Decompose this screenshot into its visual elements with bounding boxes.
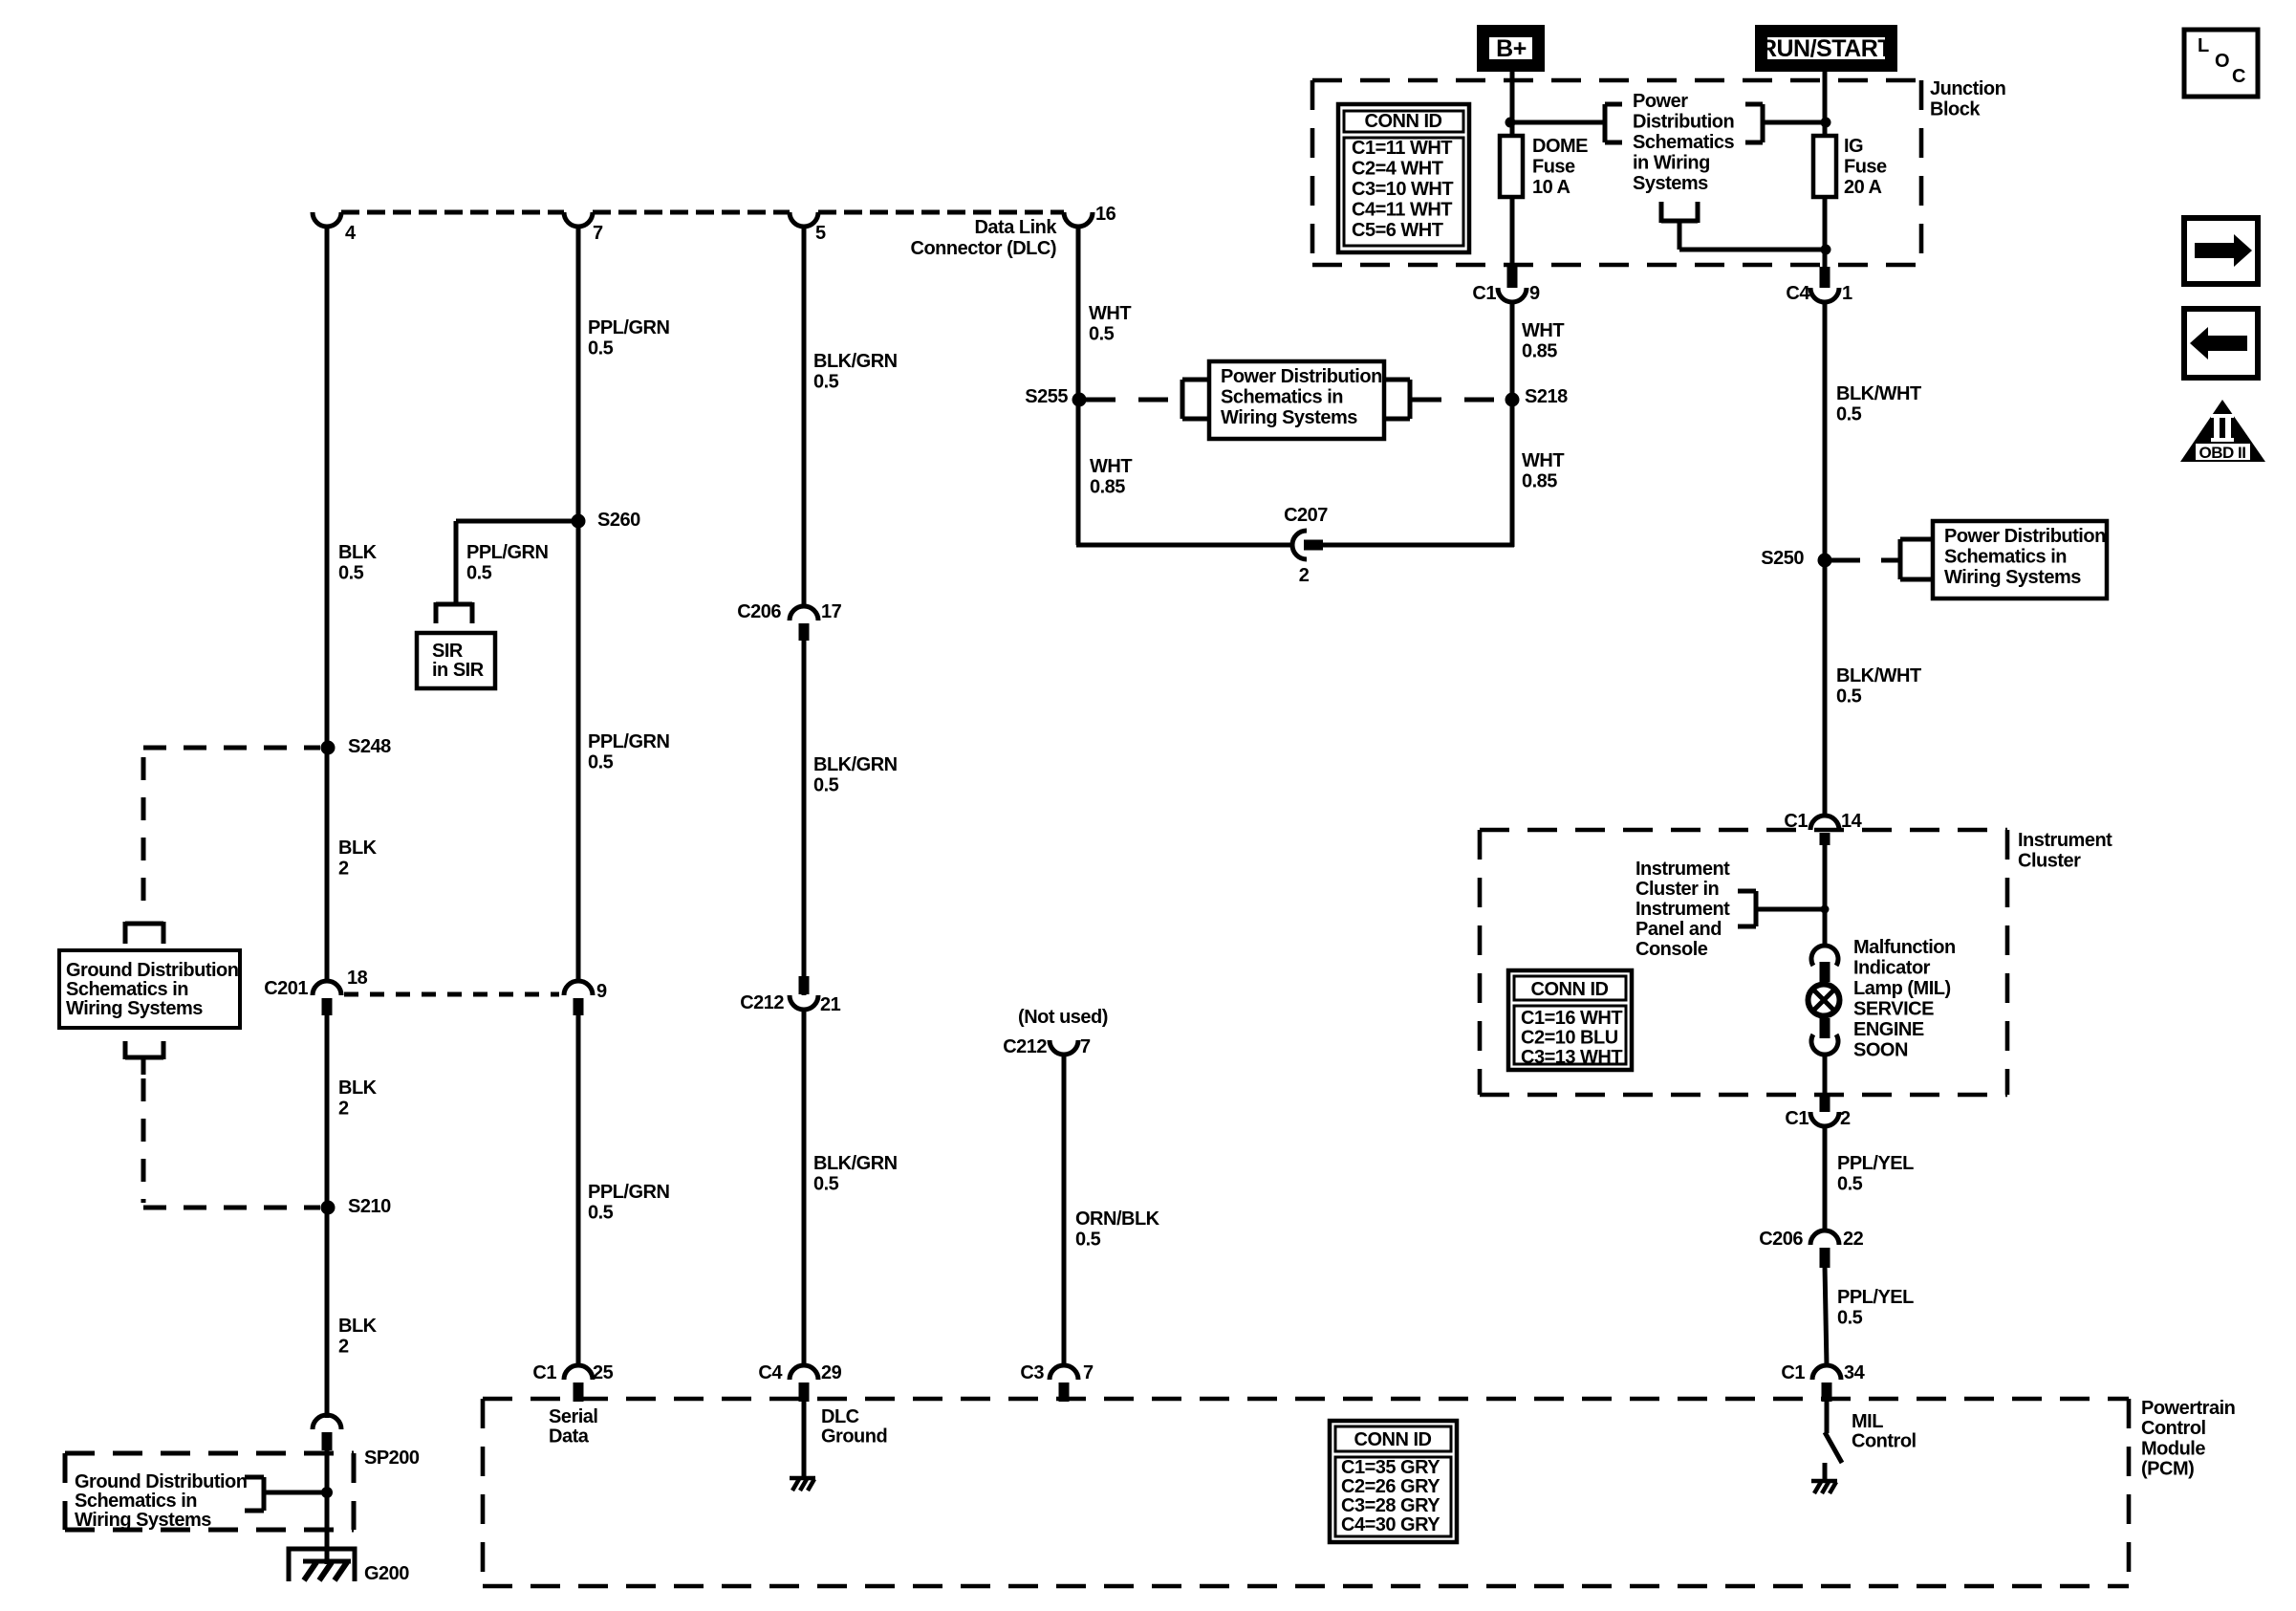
ground DLC inside PCM	[790, 1478, 815, 1491]
svg-text:Cluster: Cluster	[2018, 851, 2081, 872]
splice S210	[321, 1196, 392, 1217]
svg-text:9: 9	[596, 981, 607, 1002]
fuse DOME 10A	[1500, 136, 1588, 198]
svg-text:Module: Module	[2141, 1438, 2205, 1459]
svg-text:Ground: Ground	[821, 1426, 887, 1448]
svg-text:C1=16 WHT: C1=16 WHT	[1521, 1008, 1622, 1029]
arrow previous page	[2184, 309, 2258, 378]
label Serial Data	[549, 1406, 597, 1448]
wire BLK pin4 to C201	[325, 226, 330, 982]
svg-text:4: 4	[345, 223, 357, 244]
svg-text:ENGINE: ENGINE	[1853, 1019, 1924, 1040]
label BLK 2 (upper)	[338, 838, 378, 880]
connector C201 pin 18	[264, 968, 367, 1015]
wire BLK/GRN pin5 to C206	[802, 226, 807, 607]
svg-text:Power: Power	[1633, 91, 1688, 112]
connector C1 pin 25	[532, 1362, 613, 1402]
wire lamp to C1-2	[1823, 1054, 1828, 1097]
svg-text:in Wiring: in Wiring	[1633, 153, 1710, 174]
svg-text:PPL/GRN: PPL/GRN	[588, 317, 669, 338]
svg-text:2: 2	[338, 1099, 349, 1120]
svg-text:BLK/GRN: BLK/GRN	[813, 1153, 898, 1174]
svg-text:S250: S250	[1761, 548, 1804, 569]
svg-text:CONN ID: CONN ID	[1354, 1429, 1432, 1450]
svg-text:Malfunction: Malfunction	[1853, 937, 1956, 958]
svg-text:7: 7	[593, 223, 603, 244]
node IG distribution	[1821, 118, 1831, 128]
svg-text:SOON: SOON	[1853, 1040, 1908, 1061]
wire node to left bracket	[1510, 120, 1605, 125]
dashed wire S250 to bracket	[1831, 558, 1900, 563]
svg-text:C212: C212	[1003, 1036, 1047, 1057]
svg-text:Schematics in: Schematics in	[1944, 546, 2067, 567]
DLC connector dashed boundary line	[341, 210, 1064, 215]
ground distribution schematics box (left)	[59, 950, 240, 1028]
wire B+ to DOME fuse	[1510, 66, 1515, 138]
svg-text:Data: Data	[549, 1426, 590, 1448]
svg-text:C3: C3	[1020, 1362, 1044, 1383]
svg-text:C207: C207	[1284, 505, 1328, 526]
svg-text:Ground Distribution: Ground Distribution	[75, 1471, 247, 1492]
connector C4 pin 29	[758, 1362, 841, 1402]
svg-text:Wiring Systems: Wiring Systems	[66, 998, 203, 1019]
lamp MIL pin lower	[1820, 1018, 1830, 1038]
wire RUN/START to IG fuse	[1823, 66, 1828, 138]
power distribution schematics box (mid)	[1209, 361, 1384, 439]
bracket right of power distribution box (mid)	[1385, 380, 1410, 419]
svg-text:WHT: WHT	[1522, 320, 1564, 341]
svg-text:Cluster in: Cluster in	[1635, 879, 1719, 900]
svg-text:SIR: SIR	[432, 641, 464, 662]
DLC pin 4 connector	[313, 212, 357, 244]
svg-text:Schematics in: Schematics in	[66, 979, 188, 1000]
svg-text:BLK/GRN: BLK/GRN	[813, 351, 898, 372]
SIR box	[417, 633, 495, 688]
label BLK/WHT 0.5 (upper)	[1836, 383, 1921, 425]
label DLC Ground	[821, 1406, 887, 1448]
label BLK/WHT 0.5 (lower)	[1836, 665, 1921, 708]
svg-text:Power Distribution: Power Distribution	[1944, 526, 2106, 547]
svg-text:BLK/WHT: BLK/WHT	[1836, 383, 1921, 404]
svg-text:0.5: 0.5	[813, 775, 839, 796]
dashed wire S248 to left rail	[143, 746, 320, 751]
svg-text:0.5: 0.5	[813, 1174, 839, 1195]
svg-text:PPL/YEL: PPL/YEL	[1837, 1153, 1914, 1174]
svg-text:0.5: 0.5	[813, 372, 839, 393]
wire bracket to lamp wire	[1756, 907, 1825, 912]
connector C206 pin 22	[1759, 1229, 1863, 1268]
svg-text:DLC: DLC	[821, 1406, 859, 1427]
svg-text:5: 5	[815, 223, 826, 244]
node lamp wire	[1821, 905, 1830, 914]
wire C1-14 into cluster	[1823, 841, 1828, 947]
wire BLK C201 to S210 to SP200	[325, 1013, 330, 1418]
svg-text:C4: C4	[758, 1362, 783, 1383]
svg-text:OBD II: OBD II	[2199, 444, 2246, 462]
svg-text:DOME: DOME	[1532, 136, 1588, 157]
svg-text:7: 7	[1080, 1036, 1091, 1057]
label PPL/GRN 0.5 (middle)	[588, 731, 669, 773]
svg-text:Data Link: Data Link	[974, 217, 1057, 238]
bracket above SIR box	[436, 602, 472, 623]
wire C1-2 to C206-22	[1823, 1125, 1828, 1231]
svg-text:C3=28 GRY: C3=28 GRY	[1341, 1495, 1440, 1516]
bracket right of lower ground distribution text	[245, 1477, 264, 1511]
svg-text:0.5: 0.5	[588, 1203, 614, 1224]
bracket right of instrument cluster text	[1738, 891, 1756, 926]
fuse IG 20A	[1813, 136, 1887, 198]
svg-text:C212: C212	[740, 992, 784, 1013]
connector C207 pin 2	[1284, 505, 1328, 586]
svg-text:BLK/GRN: BLK/GRN	[813, 754, 898, 775]
svg-text:IG: IG	[1844, 136, 1863, 157]
svg-text:Wiring Systems: Wiring Systems	[75, 1510, 211, 1531]
svg-text:Panel and: Panel and	[1635, 919, 1722, 940]
svg-text:CONN ID: CONN ID	[1531, 979, 1609, 1000]
svg-text:0.85: 0.85	[1090, 477, 1125, 498]
wire bracket-down to IG wire	[1679, 248, 1826, 252]
svg-text:0.85: 0.85	[1522, 471, 1557, 492]
bracket below ground distribution box	[125, 1041, 163, 1075]
svg-text:17: 17	[821, 601, 842, 622]
label BLK/GRN 0.5 (middle)	[813, 754, 898, 796]
connector C1 pin 2	[1785, 1097, 1851, 1129]
bracket right of power distribution text (junction)	[1745, 104, 1763, 142]
DLC pin 5 connector	[790, 212, 826, 244]
svg-text:C1: C1	[532, 1362, 556, 1383]
label G200	[364, 1563, 409, 1584]
dashed rail vertical lower	[141, 1078, 146, 1203]
bracket above ground distribution box	[125, 922, 163, 944]
connector C206 pin 17	[737, 601, 841, 641]
label Junction Block	[1930, 78, 2005, 120]
svg-text:RUN/START: RUN/START	[1760, 35, 1892, 62]
label WHT 0.85 (left)	[1090, 456, 1132, 498]
svg-text:BLK: BLK	[338, 1078, 378, 1099]
arrow next page	[2184, 218, 2258, 284]
label C207 right wire WHT 0.85	[1522, 450, 1564, 492]
svg-text:S248: S248	[348, 736, 391, 757]
label PPL/GRN 0.5 (top)	[588, 317, 669, 359]
dashed link C201-18 to C201-9	[344, 992, 559, 997]
svg-text:Connector (DLC): Connector (DLC)	[911, 238, 1056, 259]
lamp MIL socket lower arc	[1811, 1034, 1838, 1055]
dashed wire bracket to S218	[1412, 398, 1505, 403]
svg-text:18: 18	[347, 968, 368, 989]
wire right bracket to IG wire	[1763, 120, 1826, 125]
connector C212 pin 21	[740, 976, 840, 1015]
bracket left of power distribution box (mid)	[1182, 380, 1208, 419]
svg-text:SP200: SP200	[364, 1448, 420, 1469]
connector SP200 arc	[313, 1415, 341, 1450]
svg-text:C4=30 GRY: C4=30 GRY	[1341, 1514, 1440, 1535]
svg-text:Instrument: Instrument	[1635, 899, 1730, 920]
svg-text:SERVICE: SERVICE	[1853, 999, 1934, 1020]
label (Not used)	[1018, 1007, 1108, 1028]
bracket left of power distribution box (right)	[1900, 539, 1932, 579]
svg-text:S218: S218	[1525, 386, 1568, 407]
svg-text:C206: C206	[1759, 1229, 1803, 1250]
svg-text:29: 29	[821, 1362, 842, 1383]
powertrain control module dashed box	[483, 1399, 2129, 1586]
label MIL Control	[1852, 1411, 1917, 1452]
connector C4 pin 1	[1786, 267, 1852, 304]
svg-text:in SIR: in SIR	[432, 660, 485, 681]
instrument cluster dashed box	[1480, 830, 2007, 1095]
label BLK 2 (middle)	[338, 1078, 378, 1120]
lamp MIL socket upper arc	[1811, 946, 1838, 966]
node IG lower	[1821, 245, 1831, 255]
svg-text:Control: Control	[1852, 1431, 1917, 1452]
label Powertrain Control Module (PCM)	[2141, 1398, 2235, 1480]
wire BLK/GRN C206 to C212	[802, 639, 807, 995]
wire ORN/BLK C212-7 to C3-7	[1062, 1054, 1067, 1366]
wire WHT C207 to S218 riser	[1321, 303, 1514, 547]
svg-text:B+: B+	[1496, 35, 1527, 62]
node B+ distribution	[1505, 118, 1516, 128]
svg-text:Junction: Junction	[1930, 78, 2005, 99]
power distribution schematics box (right)	[1933, 521, 2107, 599]
connector C212 pin 7	[1003, 1036, 1091, 1057]
svg-text:0.5: 0.5	[338, 563, 364, 584]
svg-text:C1: C1	[1472, 283, 1496, 304]
connector C1 pin 14	[1784, 811, 1862, 845]
svg-text:34: 34	[1844, 1362, 1866, 1383]
svg-text:G200: G200	[364, 1563, 409, 1584]
svg-text:Schematics: Schematics	[1633, 132, 1735, 153]
svg-text:0.5: 0.5	[1837, 1174, 1863, 1195]
svg-text:C4=11 WHT: C4=11 WHT	[1352, 200, 1452, 221]
label Malfunction Indicator Lamp	[1853, 937, 1956, 1061]
connector C201 pin 9	[564, 981, 607, 1015]
wire PPL/GRN 9 to C1-25	[576, 1013, 581, 1366]
svg-text:Schematics in: Schematics in	[1221, 386, 1343, 407]
splice S260	[572, 510, 641, 531]
dashed wire rail to S210	[143, 1206, 320, 1210]
bracket left of power distribution text (junction)	[1605, 104, 1622, 142]
label WHT 0.5	[1089, 303, 1131, 345]
ground MIL inside PCM	[1811, 1481, 1837, 1493]
svg-text:Fuse: Fuse	[1844, 157, 1887, 178]
svg-text:MIL: MIL	[1852, 1411, 1883, 1432]
wire SP200 to G200	[325, 1448, 330, 1564]
SP200 dashed box	[65, 1453, 354, 1530]
svg-text:0.5: 0.5	[1836, 404, 1862, 425]
svg-text:0.5: 0.5	[1836, 686, 1862, 708]
svg-text:Wiring Systems: Wiring Systems	[1221, 407, 1357, 428]
wire S260 branch to SIR	[456, 521, 580, 604]
instrument cluster in instrument panel text	[1635, 859, 1730, 960]
svg-text:BLK: BLK	[338, 838, 378, 859]
svg-text:BLK/WHT: BLK/WHT	[1836, 665, 1921, 686]
svg-text:1: 1	[1842, 283, 1852, 304]
svg-text:C3=10 WHT: C3=10 WHT	[1352, 179, 1453, 200]
svg-text:0.5: 0.5	[1075, 1230, 1101, 1251]
svg-text:Powertrain: Powertrain	[2141, 1398, 2235, 1419]
svg-text:S255: S255	[1025, 386, 1068, 407]
OBD II triangle symbol	[2180, 400, 2265, 462]
svg-text:16: 16	[1095, 204, 1116, 225]
PCM CONN ID table	[1330, 1421, 1457, 1542]
svg-text:S210: S210	[348, 1196, 391, 1217]
svg-text:0.5: 0.5	[588, 752, 614, 773]
wire DLC ground inside PCM	[802, 1401, 807, 1477]
label SP200	[364, 1448, 420, 1469]
wire PPL/GRN pin7 to connector 9	[576, 226, 581, 983]
label WHT 0.85 (right upper)	[1522, 320, 1564, 362]
svg-text:Power Distribution: Power Distribution	[1221, 366, 1382, 387]
svg-text:Instrument: Instrument	[1635, 859, 1730, 880]
svg-text:0.5: 0.5	[1089, 324, 1115, 345]
wire C206-22 to C1-34	[1825, 1266, 1827, 1366]
svg-text:0.5: 0.5	[1837, 1308, 1863, 1329]
svg-text:C1=11 WHT: C1=11 WHT	[1352, 138, 1452, 159]
svg-text:Lamp (MIL): Lamp (MIL)	[1853, 978, 1951, 999]
svg-text:C5=6 WHT: C5=6 WHT	[1352, 220, 1443, 241]
svg-text:2: 2	[338, 1337, 349, 1358]
splice S248	[321, 736, 392, 757]
svg-text:WHT: WHT	[1522, 450, 1564, 471]
svg-text:Indicator: Indicator	[1853, 958, 1931, 979]
splice S218	[1505, 386, 1569, 407]
label BLK 2 (lower)	[338, 1316, 378, 1358]
svg-text:2: 2	[1299, 565, 1310, 586]
wire BLK/GRN C212 to C4-29	[802, 1009, 807, 1366]
svg-text:PPL/GRN: PPL/GRN	[466, 542, 548, 563]
svg-text:C201: C201	[264, 978, 308, 999]
bracket below power distribution text (junction)	[1661, 202, 1698, 250]
cluster CONN ID table	[1508, 970, 1632, 1070]
label ORN/BLK 0.5	[1075, 1208, 1160, 1251]
svg-text:Serial: Serial	[549, 1406, 597, 1427]
svg-text:CONN ID: CONN ID	[1365, 111, 1442, 132]
junction block dashed box	[1312, 80, 1921, 265]
svg-text:25: 25	[593, 1362, 614, 1383]
wire C4-1 to C1-14	[1823, 301, 1828, 816]
svg-text:C4: C4	[1786, 283, 1810, 304]
svg-text:C1: C1	[1785, 1108, 1809, 1129]
svg-text:Wiring Systems: Wiring Systems	[1944, 567, 2081, 588]
label BLK/GRN 0.5 (bottom)	[813, 1153, 898, 1195]
svg-text:Schematics in: Schematics in	[75, 1491, 197, 1512]
label PPL/YEL 0.5 (lower)	[1837, 1287, 1914, 1329]
svg-text:L: L	[2198, 35, 2209, 56]
svg-text:PPL/YEL: PPL/YEL	[1837, 1287, 1914, 1308]
svg-text:Distribution: Distribution	[1633, 112, 1734, 133]
switch MIL control	[1825, 1401, 1842, 1480]
svg-text:ORN/BLK: ORN/BLK	[1075, 1208, 1160, 1230]
B+ terminal box	[1484, 32, 1539, 66]
svg-text:PPL/GRN: PPL/GRN	[588, 731, 669, 752]
svg-text:C1: C1	[1781, 1362, 1805, 1383]
lamp MIL pin upper	[1820, 962, 1830, 982]
connector C1 pin 34	[1781, 1362, 1865, 1402]
svg-text:0.5: 0.5	[588, 338, 614, 359]
svg-text:20 A: 20 A	[1844, 177, 1882, 198]
svg-text:Ground Distribution: Ground Distribution	[66, 960, 238, 981]
svg-text:Instrument: Instrument	[2018, 830, 2112, 851]
junction CONN ID table	[1338, 104, 1469, 252]
dashed wire S255 to bracket	[1086, 398, 1182, 403]
svg-text:C3=13 WHT: C3=13 WHT	[1521, 1047, 1622, 1068]
svg-text:C2=4 WHT: C2=4 WHT	[1352, 159, 1443, 180]
label BLK/GRN 0.5 (top)	[813, 351, 898, 393]
wire bracket to SP200 splice	[264, 1491, 327, 1495]
svg-text:10 A: 10 A	[1532, 177, 1570, 198]
RUN/START terminal box	[1760, 32, 1892, 66]
ground G200	[289, 1549, 355, 1581]
DLC pin 16 connector	[1064, 204, 1116, 227]
svg-text:(Not used): (Not used)	[1018, 1007, 1108, 1028]
wire IG fuse to C4-1	[1823, 197, 1828, 267]
wire DOME fuse to C1-9	[1510, 197, 1515, 267]
svg-text:2: 2	[1840, 1108, 1851, 1129]
DLC pin 7 connector	[564, 212, 603, 244]
svg-text:21: 21	[820, 994, 841, 1015]
svg-text:BLK: BLK	[338, 542, 378, 563]
power distribution schematics text (junction)	[1633, 91, 1735, 194]
label Data Link Connector (DLC)	[911, 217, 1058, 259]
connector C1 pin 9	[1472, 267, 1540, 304]
svg-text:7: 7	[1083, 1362, 1094, 1383]
svg-text:14: 14	[1841, 811, 1863, 832]
svg-text:S260: S260	[597, 510, 640, 531]
splice S255	[1025, 386, 1086, 407]
dashed rail vertical upper	[141, 757, 146, 916]
label Instrument Cluster	[2018, 830, 2112, 872]
svg-text:C1=35 GRY: C1=35 GRY	[1341, 1457, 1440, 1478]
svg-text:C2=10 BLU: C2=10 BLU	[1521, 1027, 1618, 1048]
wire WHT pin16 to S255 to C207	[1076, 226, 1292, 545]
LOC legend box	[2184, 30, 2258, 97]
svg-text:2: 2	[338, 859, 349, 880]
ground distribution schematics text (lower)	[75, 1471, 247, 1531]
svg-text:C206: C206	[737, 601, 781, 622]
svg-text:Fuse: Fuse	[1532, 157, 1575, 178]
svg-text:C: C	[2232, 66, 2245, 87]
svg-text:BLK: BLK	[338, 1316, 378, 1337]
svg-text:Systems: Systems	[1633, 173, 1708, 194]
label PPL/GRN 0.5 (bottom)	[588, 1182, 669, 1224]
svg-text:9: 9	[1529, 283, 1540, 304]
svg-text:Block: Block	[1930, 99, 1981, 120]
label BLK 0.5	[338, 542, 378, 584]
svg-text:O: O	[2215, 51, 2229, 72]
svg-text:Console: Console	[1635, 939, 1708, 960]
svg-text:0.85: 0.85	[1522, 341, 1557, 362]
label PPL/YEL 0.5 (upper)	[1837, 1153, 1914, 1195]
svg-text:Control: Control	[2141, 1418, 2206, 1439]
connector C3 pin 7	[1020, 1362, 1094, 1402]
svg-text:PPL/GRN: PPL/GRN	[588, 1182, 669, 1203]
svg-text:22: 22	[1843, 1229, 1864, 1250]
label PPL/GRN 0.5 (SIR branch)	[466, 542, 548, 584]
svg-text:WHT: WHT	[1089, 303, 1131, 324]
svg-text:(PCM): (PCM)	[2141, 1459, 2194, 1480]
splice S250	[1761, 548, 1831, 569]
svg-text:0.5: 0.5	[466, 563, 492, 584]
svg-text:WHT: WHT	[1090, 456, 1132, 477]
svg-text:C2=26 GRY: C2=26 GRY	[1341, 1476, 1440, 1497]
lamp MIL bulb	[1809, 985, 1840, 1016]
splice SP200 junction	[321, 1487, 333, 1498]
